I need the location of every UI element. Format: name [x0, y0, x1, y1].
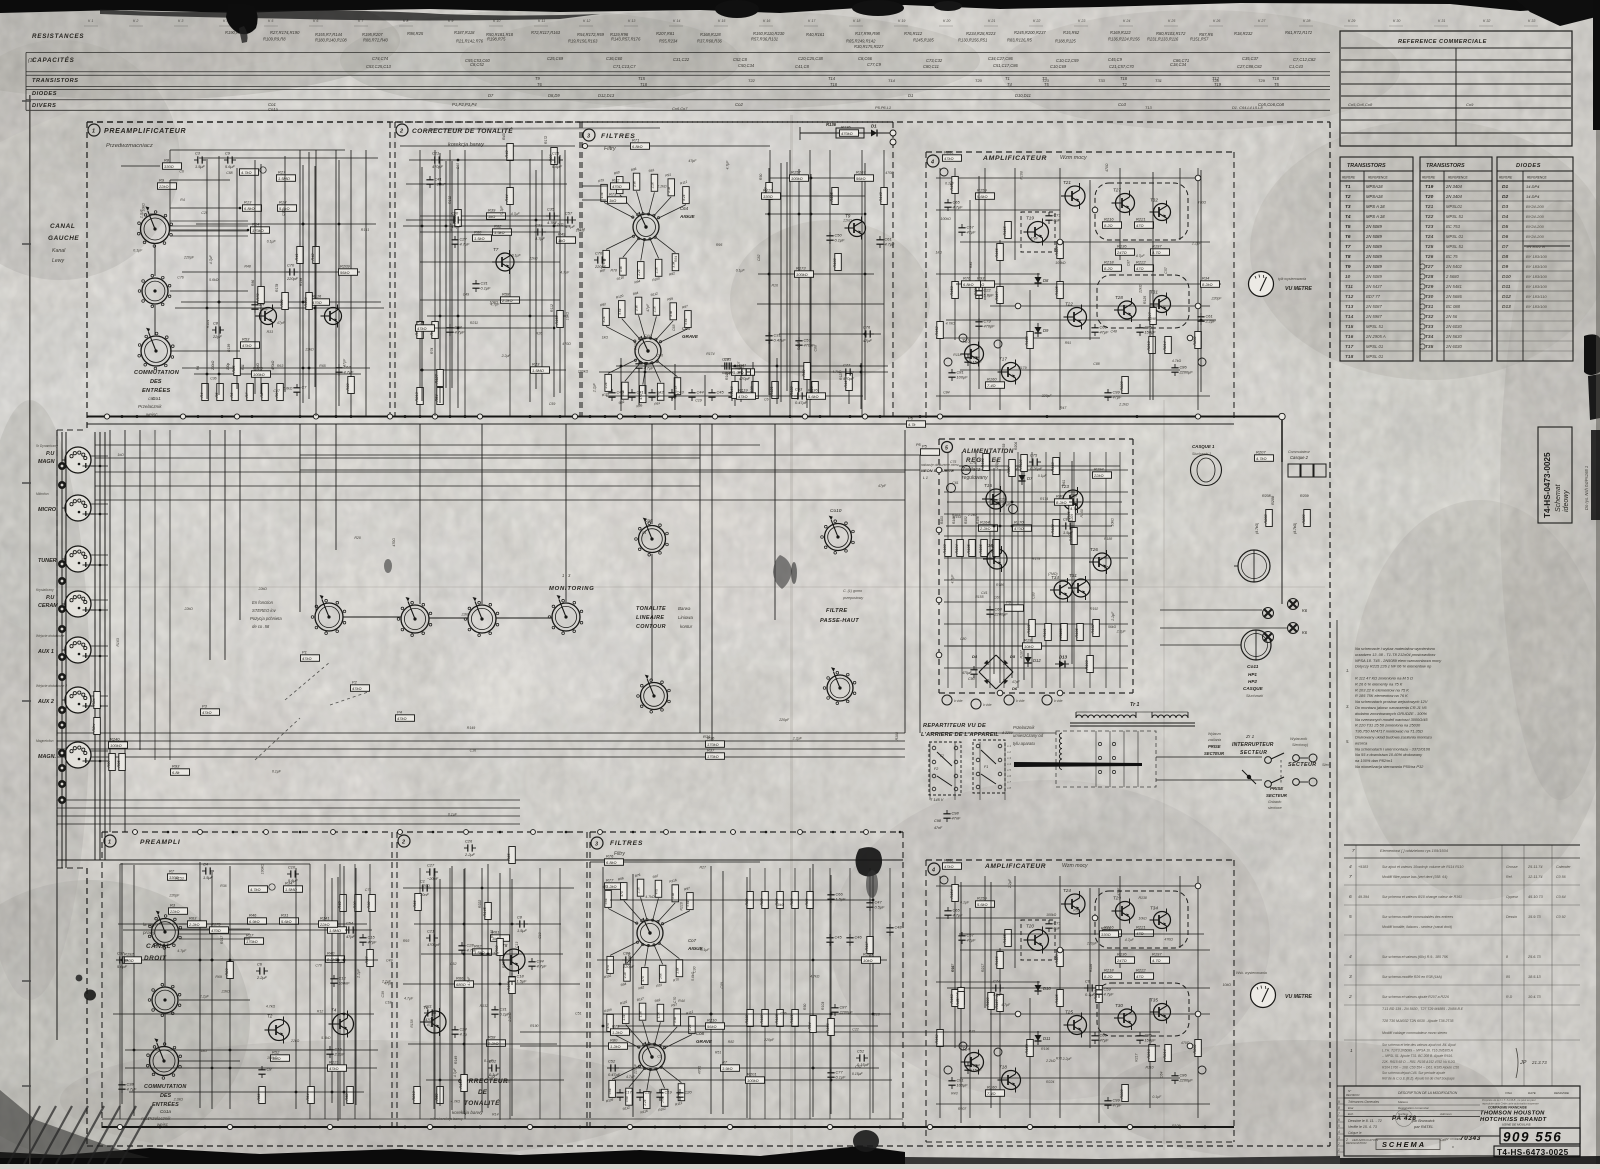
svg-text:D4: D4	[972, 654, 978, 659]
svg-text:K 23: K 23	[1078, 19, 1085, 23]
svg-text:R76: R76	[963, 275, 971, 280]
svg-text:K 12: K 12	[583, 19, 590, 23]
svg-text:D7: D7	[1502, 244, 1508, 250]
resistor bottom R152	[935, 1030, 944, 1047]
svg-text:1.5μF: 1.5μF	[1063, 530, 1074, 535]
resistor top R160	[986, 376, 1005, 388]
bottom block 4 amplificateur border	[926, 859, 1234, 861]
svg-text:Sieciowy): Sieciowy)	[1292, 743, 1309, 747]
wire b1x h960	[120, 959, 378, 961]
filter rotary switch F3	[637, 920, 663, 946]
wire p2x h184	[406, 183, 567, 185]
filter rotary switch F2	[635, 338, 661, 364]
svg-text:o 8: o 8	[1007, 786, 1011, 790]
svg-text:2.2kΩ: 2.2kΩ	[188, 922, 200, 927]
capacitor C16b	[326, 1046, 345, 1058]
capacitor C21b	[426, 928, 441, 947]
wire alx v1024	[1023, 466, 1025, 680]
svg-text:3: 3	[1349, 974, 1352, 980]
resistor R106	[483, 903, 492, 920]
svg-text:R190: R190	[530, 1024, 538, 1028]
speaker jacks right	[1238, 550, 1270, 582]
svg-text:47kΩ: 47kΩ	[944, 864, 954, 869]
svg-text:R151,R57: R151,R57	[1190, 37, 1209, 42]
capacitor C15b	[359, 934, 377, 946]
svg-text:R36: R36	[703, 734, 711, 739]
svg-text:T14: T14	[1345, 314, 1354, 320]
svg-text:D5: D5	[1010, 654, 1016, 659]
wire f3y v849	[848, 375, 850, 404]
wire b1x v356	[355, 868, 357, 1105]
svg-text:R187: R187	[1055, 954, 1059, 964]
resistor R197	[252, 365, 271, 377]
svg-text:K 19: K 19	[898, 19, 905, 23]
capacitor C31	[1197, 313, 1216, 325]
svg-text:CANAL: CANAL	[50, 223, 75, 230]
svg-text:T25: T25	[1065, 1010, 1073, 1015]
resistor R47b	[365, 950, 374, 967]
svg-text:R68: R68	[345, 1093, 349, 1101]
svg-text:K 28: K 28	[1303, 19, 1310, 23]
svg-text:2.2μF: 2.2μF	[792, 736, 803, 740]
svg-text:47kΩ: 47kΩ	[352, 686, 362, 691]
svg-text:T18: T18	[999, 1065, 1007, 1070]
svg-text:R63: R63	[277, 364, 283, 368]
svg-text:R150: R150	[826, 1023, 830, 1033]
resistor R17b	[245, 932, 264, 944]
svg-text:K 11: K 11	[538, 19, 545, 23]
svg-text:R198: R198	[1148, 317, 1156, 321]
svg-text:DROIT: DROIT	[144, 955, 167, 962]
resistor R225	[328, 1059, 347, 1071]
svg-text:22kΩ: 22kΩ	[258, 587, 268, 591]
resistor top R202	[1193, 332, 1202, 349]
svg-text:prawy: prawy	[142, 930, 156, 935]
svg-text:R70: R70	[256, 293, 260, 301]
resistor R72	[611, 177, 630, 189]
svg-text:T4: T4	[1345, 214, 1351, 220]
svg-text:VU METRE: VU METRE	[1285, 994, 1312, 1000]
svg-text:2N 5481: 2N 5481	[1445, 284, 1462, 289]
alx nodes	[1023, 465, 1026, 468]
svg-text:4.7μF: 4.7μF	[1070, 506, 1081, 511]
svg-text:Co1a: Co1a	[160, 1109, 171, 1114]
svg-text:DEMANDE: DEMANDE	[1554, 1091, 1570, 1095]
svg-text:R136,R224,R156: R136,R224,R156	[1108, 37, 1140, 42]
svg-text:R15: R15	[969, 1029, 975, 1033]
svg-text:2.2kΩ: 2.2kΩ	[173, 1097, 184, 1101]
svg-text:C64: C64	[1159, 1072, 1163, 1078]
svg-text:C52: C52	[857, 1048, 865, 1053]
svg-text:T14: T14	[888, 78, 896, 83]
modifications table	[1336, 620, 1338, 1156]
capacitor bottom C99	[1104, 1097, 1122, 1109]
left small resistors near connectors	[92, 692, 101, 709]
capacitor C46	[508, 973, 527, 985]
svg-text:C42: C42	[657, 390, 665, 395]
svg-text:22kΩ: 22kΩ	[528, 257, 538, 261]
wire alx h466	[959, 465, 1120, 467]
svg-text:Wzm mocy: Wzm mocy	[1062, 863, 1088, 869]
svg-text:przepustowy: przepustowy	[842, 596, 863, 600]
wire p1x h272	[182, 271, 360, 273]
mains dot	[1247, 775, 1251, 779]
capacitor C27	[451, 236, 470, 248]
svg-text:dodatno zmontowanych GRUDZE: dodatno zmontowanych GRUDZE - 100%	[1355, 711, 1428, 716]
svg-text:0.1μF: 0.1μF	[736, 268, 746, 272]
scan artifact ink droplet top	[226, 3, 258, 34]
alim transistor T31	[1068, 573, 1090, 600]
capacitor C5	[345, 920, 357, 939]
svg-text:0.1μF: 0.1μF	[945, 181, 955, 185]
svg-text:R169,R122: R169,R122	[1110, 30, 1131, 35]
svg-text:0.47μF: 0.47μF	[774, 338, 787, 343]
svg-text:0.26μF: 0.26μF	[1030, 466, 1043, 471]
resistor R85	[495, 939, 504, 956]
din connector CERAM	[65, 591, 96, 617]
svg-text:1N 3022 B: 1N 3022 B	[1526, 244, 1545, 249]
capacitor C32b	[488, 1058, 500, 1077]
svg-text:Przelacznik: Przelacznik	[148, 1116, 171, 1121]
amplifier top t19 dashed box	[1021, 212, 1055, 252]
capacitor bottom C71	[1045, 920, 1060, 932]
svg-text:R85: R85	[790, 898, 794, 906]
svg-text:5.6k: 5.6k	[659, 973, 663, 979]
svg-text:R78: R78	[611, 268, 617, 272]
resistor bottom row 3	[245, 384, 254, 401]
svg-text:Wejscie dodatkowe: Wejscie dodatkowe	[36, 634, 65, 638]
svg-text:T6: T6	[537, 82, 543, 87]
resistor R60	[473, 229, 492, 241]
svg-text:Do montazu jakosc oznaczen: Do montazu jakosc oznaczenia CR.J1 V6	[1355, 705, 1427, 710]
svg-text:R56: R56	[257, 1093, 261, 1101]
jack socket 725	[58, 721, 66, 729]
svg-text:R 112 47 KΩ zmieniono na: R 112 47 KΩ zmieniono na M 5 Ω	[1355, 676, 1413, 681]
svg-text:5.6k: 5.6k	[608, 1088, 612, 1094]
resistor bf1 0	[745, 892, 754, 909]
resistor F2 top 0	[603, 308, 610, 325]
resistor R39	[487, 207, 506, 219]
svg-text:14 DP4: 14 DP4	[1526, 184, 1540, 189]
wire b1x h1068	[125, 1067, 377, 1069]
resistor F1 bottom 4	[672, 254, 679, 271]
svg-text:5.6pF: 5.6pF	[117, 964, 128, 969]
wire p2x v440	[439, 153, 441, 403]
resistor R154	[826, 1019, 835, 1036]
resistor R8	[163, 157, 182, 169]
svg-text:T20: T20	[1026, 924, 1034, 929]
amplifier bottom transistors	[1061, 888, 1085, 917]
svg-text:C6: C6	[179, 170, 184, 174]
resistor bottom R202	[1193, 1040, 1202, 1057]
svg-text:4.7μF: 4.7μF	[885, 242, 896, 247]
svg-text:GRAVE: GRAVE	[682, 334, 699, 339]
svg-text:2: 2	[1348, 994, 1352, 1000]
capacitor cluster 2	[648, 389, 664, 401]
svg-text:C18,C34: C18,C34	[1170, 62, 1187, 67]
svg-text:C68: C68	[672, 325, 676, 331]
resistor R31b	[280, 912, 299, 924]
scan artifact top blobs	[852, 0, 904, 16]
svg-text:Dessin: Dessin	[1506, 915, 1517, 919]
svg-text:T24: T24	[1063, 888, 1071, 893]
svg-text:BC 75: BC 75	[1446, 254, 1458, 259]
svg-text:R19: R19	[1024, 637, 1032, 642]
svg-text:R136: R136	[1117, 243, 1127, 248]
resistor R14	[251, 221, 270, 233]
svg-text:1.8k: 1.8k	[675, 967, 679, 973]
svg-text:R91: R91	[1065, 341, 1071, 345]
svg-text:T30: T30	[1425, 294, 1434, 300]
resistor R53	[241, 336, 260, 348]
svg-text:150pF: 150pF	[1145, 1038, 1157, 1043]
casque1 jack	[1191, 455, 1222, 486]
svg-text:C75: C75	[950, 460, 956, 464]
svg-text:Etat: Etat	[1348, 1106, 1354, 1110]
wire f3y v645	[644, 362, 646, 394]
resistor F2 top 2	[635, 297, 642, 314]
resistor R41	[295, 247, 304, 264]
svg-text:2.2μF: 2.2μF	[501, 354, 512, 358]
bottom preamp rotary B	[148, 983, 181, 1016]
svg-text:R55: R55	[956, 998, 960, 1006]
svg-text:Zr 1: Zr 1	[1245, 734, 1255, 739]
svg-text:T2: T2	[1122, 82, 1128, 87]
secteur dashed link	[1280, 760, 1282, 784]
svg-text:D4: D4	[1502, 214, 1508, 220]
svg-text:C88: C88	[813, 345, 817, 351]
svg-text:R48: R48	[244, 264, 250, 268]
capacitor C34b	[528, 958, 547, 970]
wire alx v1072	[1071, 461, 1073, 664]
svg-text:R127: R127	[951, 964, 955, 972]
svg-text:MPSL 51: MPSL 51	[1446, 244, 1463, 249]
svg-text:MPSL 51: MPSL 51	[1366, 324, 1383, 329]
svg-text:5.6k: 5.6k	[671, 892, 675, 898]
amplifier bottom output group boxes	[1095, 891, 1188, 948]
svg-text:T29: T29	[1425, 284, 1434, 290]
alim small meter circles	[962, 466, 971, 475]
svg-text:R214: R214	[1163, 1049, 1167, 1058]
svg-text:C43: C43	[677, 390, 685, 395]
resistor bottom row 2	[230, 384, 239, 401]
svg-text:PREAMPLIFICATEUR: PREAMPLIFICATEUR	[104, 128, 186, 135]
svg-text:R125: R125	[253, 365, 263, 370]
svg-text:7.4Ω: 7.4Ω	[987, 383, 996, 388]
svg-text:47pF: 47pF	[993, 992, 1002, 997]
svg-text:C21: C21	[432, 150, 439, 155]
resistor R119	[416, 319, 435, 331]
svg-text:Oppeur: Oppeur	[1506, 895, 1519, 899]
capacitor top C74	[964, 354, 982, 366]
svg-text:DES: DES	[150, 379, 162, 385]
svg-text:22kΩ: 22kΩ	[158, 184, 169, 189]
svg-text:C1: C1	[420, 878, 425, 883]
resistor top R152	[935, 322, 944, 339]
svg-text:C71,C13,C7: C71,C13,C7	[613, 64, 636, 69]
svg-text:C50,C34: C50,C34	[738, 63, 755, 68]
svg-text:R4: R4	[180, 198, 185, 202]
alim resistor col 3	[979, 540, 988, 557]
transformer leads	[1075, 712, 1077, 718]
svg-text:TONALITE: TONALITE	[636, 606, 666, 612]
svg-text:Calque le: Calque le	[1348, 1131, 1362, 1135]
svg-text:C1,C43: C1,C43	[1289, 64, 1304, 69]
svg-text:C17: C17	[625, 1090, 633, 1095]
wire p2x v446	[445, 161, 447, 388]
resistor F1 top 0	[601, 184, 608, 201]
svg-text:470: 470	[641, 976, 645, 982]
svg-text:na 100% dan P82/m1: na 100% dan P82/m1	[1355, 758, 1392, 763]
svg-text:R226: R226	[1089, 964, 1093, 972]
svg-text:47kΩ: 47kΩ	[329, 1066, 339, 1071]
main horizontal bus top	[87, 416, 1282, 418]
svg-text:C7,C12,C82: C7,C12,C82	[1293, 57, 1316, 62]
wire b3x h900	[610, 899, 873, 901]
svg-text:R43: R43	[951, 1092, 957, 1096]
wire p2x h328	[421, 327, 552, 329]
resistor bf2 2	[775, 1010, 784, 1027]
correcteur rails	[419, 150, 421, 416]
wire p2x v530	[529, 159, 531, 402]
capacitor C48	[635, 360, 654, 372]
svg-text:R103: R103	[943, 544, 947, 554]
wire b3x v723	[722, 871, 724, 1114]
svg-text:K 18: K 18	[853, 19, 860, 23]
svg-text:Wzm mocy: Wzm mocy	[1060, 155, 1087, 161]
svg-text:C61: C61	[952, 481, 958, 485]
svg-text:0.1μF: 0.1μF	[500, 205, 504, 215]
wire b2x v500	[499, 873, 501, 1120]
svg-text:C70: C70	[287, 262, 295, 267]
svg-text:47pF: 47pF	[277, 321, 286, 325]
svg-text:T32: T32	[1425, 314, 1434, 320]
din connector MICRO	[65, 495, 96, 521]
svg-text:22kΩ: 22kΩ	[842, 218, 852, 222]
resistor R176	[455, 975, 474, 987]
svg-text:T 145 V: T 145 V	[930, 798, 944, 802]
svg-text:P2: P2	[352, 679, 358, 684]
alim border junction circles	[936, 467, 942, 473]
resistor R34b	[284, 880, 303, 892]
svg-text:R34: R34	[1202, 275, 1210, 280]
din connector MAGN	[65, 447, 96, 473]
svg-text:R211: R211	[470, 321, 478, 325]
alim transistor T16	[983, 543, 1007, 572]
capacitor C28	[723, 356, 735, 375]
svg-text:R4: R4	[200, 393, 204, 398]
svg-text:C9: C9	[657, 1055, 662, 1059]
svg-text:100μF: 100μF	[957, 375, 969, 380]
resistor R80b	[520, 1045, 1160, 1047]
svg-text:Verifie le 15. 4. 73: Verifie le 15. 4. 73	[1348, 1125, 1377, 1129]
svg-text:AIGUE: AIGUE	[679, 214, 695, 219]
svg-text:Siec: Siec	[1322, 763, 1329, 767]
svg-text:4.7μF: 4.7μF	[455, 330, 466, 335]
svg-text:C57: C57	[565, 210, 573, 215]
svg-text:47pF: 47pF	[646, 303, 650, 312]
wire p2x v458	[457, 166, 459, 408]
svg-text:D7: D7	[488, 93, 494, 98]
svg-text:Matiere: Matiere	[1398, 1100, 1408, 1104]
svg-text:R18: R18	[279, 199, 287, 204]
capacitor bottom C65	[944, 907, 963, 919]
svg-text:K 2: K 2	[133, 19, 138, 23]
svg-text:10kΩ: 10kΩ	[776, 903, 785, 907]
svg-text:R58: R58	[502, 291, 510, 296]
svg-text:R40: R40	[327, 950, 335, 955]
svg-text:2.2μF: 2.2μF	[1008, 878, 1012, 889]
wire b3x h1068	[610, 1067, 879, 1069]
svg-text:D6: D6	[1012, 686, 1018, 691]
resistor R46 R48	[415, 322, 424, 339]
resistor top R213	[1147, 337, 1156, 354]
svg-text:5: 5	[945, 446, 948, 452]
svg-text:100kΩ: 100kΩ	[1055, 261, 1066, 265]
svg-text:1.5μF: 1.5μF	[517, 979, 528, 984]
resistor R35	[762, 187, 781, 199]
svg-text:Na 55 x dowolstwa 10-60% d: Na 55 x dowolstwa 10-60% drukowany	[1355, 752, 1423, 757]
svg-text:C19: C19	[695, 399, 701, 403]
svg-text:1kΩ: 1kΩ	[117, 453, 124, 457]
svg-text:R33: R33	[346, 383, 350, 391]
svg-text:AMPLIFICATEUR: AMPLIFICATEUR	[982, 155, 1047, 162]
svg-text:1.5k: 1.5k	[656, 1012, 660, 1018]
svg-text:C10,C2,C59: C10,C2,C59	[1056, 58, 1079, 63]
svg-text:COMMUTATION: COMMUTATION	[144, 1084, 186, 1090]
transformer core	[1070, 722, 1195, 724]
svg-text:C10: C10	[538, 932, 542, 938]
svg-text:R245,R185: R245,R185	[913, 38, 934, 43]
svg-text:2.2kΩ: 2.2kΩ	[508, 1012, 512, 1023]
svg-text:P5: P5	[922, 443, 928, 448]
svg-text:T6: T6	[1345, 234, 1351, 240]
resistor R40	[962, 275, 981, 287]
alim resistor col 2	[967, 540, 976, 557]
wire f3x h334	[779, 333, 881, 335]
svg-text:R104 1760 -- 168. C50 554 -- Ω: R104 1760 -- 168. C50 554 -- Ω61. R185 A…	[1382, 1065, 1459, 1069]
resistor R39	[280, 293, 289, 310]
svg-text:2N 2905 A: 2N 2905 A	[1365, 334, 1386, 339]
capacitor C7	[293, 384, 307, 396]
svg-text:Pozycja pchnieta: Pozycja pchnieta	[250, 616, 282, 621]
svg-text:DESIGNATION: DESIGNATION	[1346, 1141, 1367, 1145]
svg-text:R18,R232: R18,R232	[1234, 31, 1253, 36]
alim transistor T23	[1059, 484, 1083, 513]
svg-text:o 4: o 4	[1007, 762, 1011, 766]
svg-text:5.6kΩ: 5.6kΩ	[691, 971, 695, 981]
svg-text:par RATEL: par RATEL	[1413, 1124, 1434, 1129]
svg-text:Wylaczn: Wylaczn	[1208, 732, 1221, 736]
svg-text:MPSL 01: MPSL 01	[1446, 234, 1463, 239]
resistor R52	[1067, 505, 1076, 522]
svg-text:4.7k: 4.7k	[908, 422, 917, 427]
svg-text:GRAVE: GRAVE	[696, 1039, 713, 1044]
correcteur h wires	[420, 215, 560, 217]
svg-text:4.7μF: 4.7μF	[560, 271, 570, 275]
wire f3x v799	[798, 169, 800, 392]
svg-text:200kΩ: 200kΩ	[211, 360, 215, 371]
resistor R168	[123, 951, 142, 963]
alim R193	[1085, 656, 1094, 673]
svg-text:C80: C80	[960, 637, 966, 641]
svg-text:T35: T35	[1150, 998, 1158, 1003]
svg-text:0.1μF: 0.1μF	[634, 340, 638, 350]
svg-text:R51: R51	[715, 1051, 721, 1055]
wire a1x v1201	[1200, 170, 1202, 392]
block 4 amplificateur border	[926, 151, 1234, 153]
svg-text:Sluchawki 1: Sluchawki 1	[1192, 452, 1211, 456]
